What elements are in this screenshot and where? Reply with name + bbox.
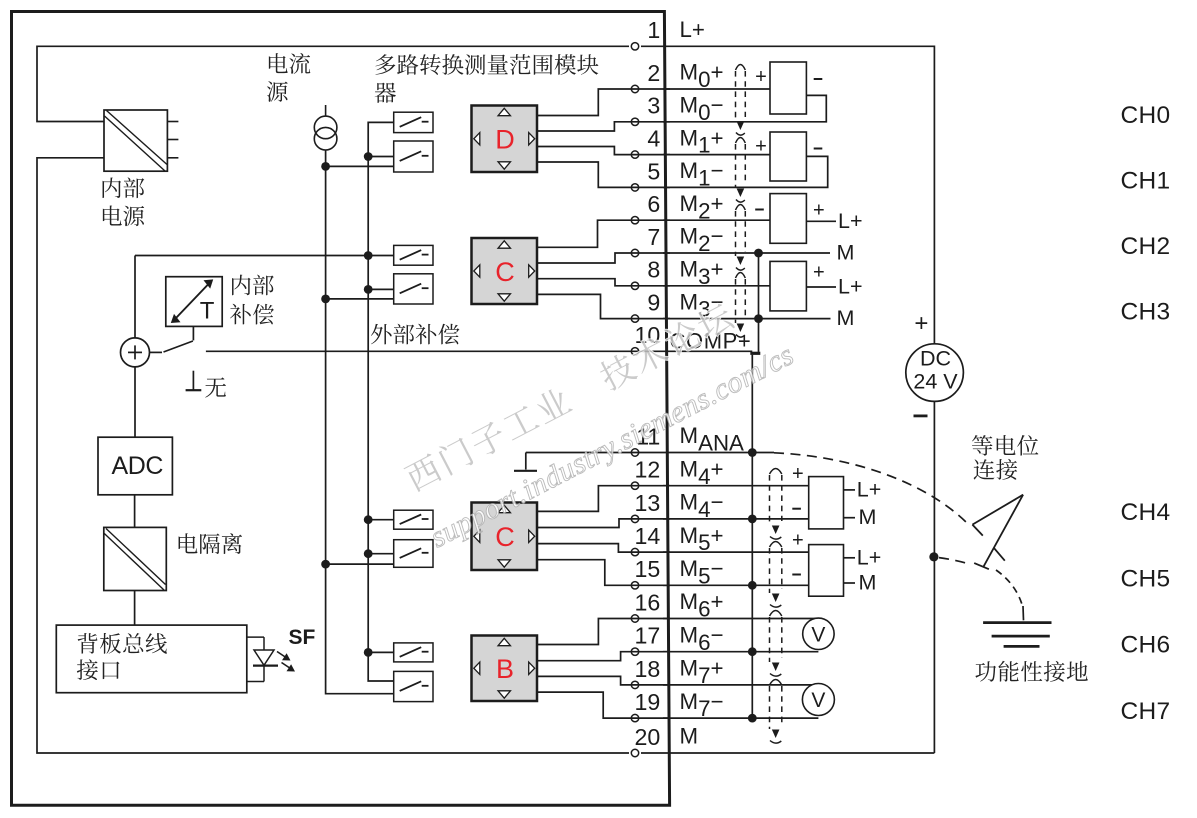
label galvanic isolation bbox=[179, 533, 243, 554]
wire mux C2 outputs to terminals 12-15 bbox=[537, 486, 670, 586]
wire mux B outputs to terminals 16-19 bbox=[537, 619, 670, 719]
2-wire transducer CH4 bbox=[809, 477, 855, 529]
svg-text:3: 3 bbox=[647, 93, 660, 119]
functional earth ground bbox=[983, 606, 1051, 646]
svg-text:7: 7 bbox=[647, 224, 660, 250]
terminal pin numbers 1-20 bbox=[635, 17, 661, 750]
svg-text:V: V bbox=[811, 624, 825, 647]
svg-text:L+: L+ bbox=[838, 209, 863, 233]
terminal clamp circles 1-20 bbox=[631, 43, 638, 757]
svg-text:CH0: CH0 bbox=[1121, 102, 1171, 129]
svg-text:C: C bbox=[495, 522, 515, 552]
wire T1 to selector switch bbox=[192, 326, 194, 340]
wire terminal 17 to voltmeter bbox=[663, 651, 818, 653]
wire MANA bus bbox=[751, 355, 753, 718]
label multiplexer range module bbox=[375, 54, 599, 103]
U3 range module C bbox=[472, 503, 538, 571]
wire ADC to isolation bbox=[134, 495, 136, 528]
svg-text:5: 5 bbox=[647, 158, 660, 184]
switch S1 bbox=[394, 112, 433, 132]
transducer CH2 bbox=[770, 194, 806, 244]
DC 24V source G1 bbox=[906, 310, 964, 416]
svg-text:+: + bbox=[914, 310, 928, 337]
svg-text:DC: DC bbox=[920, 347, 951, 371]
summing node A1 bbox=[121, 338, 150, 367]
svg-text:+: + bbox=[755, 66, 767, 88]
switch S8 bbox=[394, 671, 433, 701]
voltmeter V1 CH6 bbox=[803, 618, 834, 649]
svg-text:V: V bbox=[811, 689, 825, 712]
svg-text:6: 6 bbox=[647, 191, 660, 217]
switch S5 bbox=[394, 510, 433, 529]
wire A1 to ADC bbox=[134, 367, 136, 437]
wire terminal 8 to transducer CH3 bbox=[663, 285, 770, 287]
wire CH1 return to terminal 5 bbox=[663, 156, 828, 187]
voltmeter V2 CH7 bbox=[802, 684, 834, 716]
internal compensation sensor T1 bbox=[166, 277, 222, 327]
current source CS1 bbox=[314, 105, 337, 150]
wire L+ to DC source bbox=[0, 0, 1, 1]
wire M bus CH2/CH3 bbox=[758, 253, 760, 352]
switch S4 bbox=[394, 274, 433, 304]
label SF bbox=[289, 626, 316, 649]
svg-text:M: M bbox=[859, 505, 877, 529]
switch S6 bbox=[394, 540, 433, 568]
svg-text:2: 2 bbox=[647, 60, 660, 86]
wire switch supply bus (right) bbox=[368, 122, 394, 681]
svg-text:SF: SF bbox=[289, 626, 316, 649]
wire terminal 16 to voltmeter bbox=[663, 618, 818, 620]
svg-text:B: B bbox=[496, 654, 514, 684]
wire A1 up to compensation net bbox=[134, 256, 136, 338]
svg-text:CH1: CH1 bbox=[1121, 167, 1171, 194]
svg-text:9: 9 bbox=[647, 290, 660, 316]
U4 range module B bbox=[472, 636, 538, 702]
svg-text:20: 20 bbox=[635, 724, 661, 750]
wire terminal 18 to voltmeter bbox=[663, 684, 818, 686]
LED SF indicator D1 bbox=[247, 637, 295, 681]
svg-text:15: 15 bbox=[635, 556, 661, 582]
wire mux D outputs to terminals 2-5 bbox=[537, 89, 670, 187]
cable shield CH0-CH3 bbox=[736, 65, 746, 338]
ADC U5 bbox=[98, 437, 172, 495]
transducer CH3 bbox=[770, 261, 806, 311]
wire terminal 13 to transducer CH4 bbox=[663, 518, 809, 520]
wire constant-current bus (left) bbox=[326, 150, 394, 694]
svg-text:17: 17 bbox=[635, 623, 661, 649]
terminal net labels L+/M0..M7/COMP+/MANA/M bbox=[670, 17, 752, 749]
switch S3 bbox=[394, 245, 433, 265]
wire dashed to functional earth bbox=[996, 570, 1023, 606]
svg-text:M: M bbox=[859, 571, 877, 595]
wire L+/M supply loop bbox=[37, 46, 934, 753]
thermocouple CH1 bbox=[770, 132, 806, 181]
svg-text:14: 14 bbox=[635, 523, 661, 549]
wire equipotential dashed from M rail bbox=[939, 558, 971, 565]
wire equipotential dashed from MANA bbox=[774, 453, 968, 524]
junction dots M bus bbox=[754, 249, 763, 323]
svg-text:D: D bbox=[495, 125, 515, 155]
galvanic isolation U6 bbox=[104, 527, 167, 590]
wire CH3 L+ stub bbox=[806, 286, 836, 288]
svg-text:L+: L+ bbox=[857, 546, 882, 570]
switch S2 bbox=[394, 141, 433, 172]
label functional earth bbox=[975, 661, 1088, 682]
svg-text:+: + bbox=[792, 530, 804, 552]
svg-text:+: + bbox=[755, 136, 767, 158]
svg-text:CH6: CH6 bbox=[1121, 632, 1171, 659]
svg-text:16: 16 bbox=[635, 589, 661, 615]
svg-text:1: 1 bbox=[647, 17, 660, 43]
supply labels L+/M field side bbox=[837, 209, 882, 595]
COMP+ bus end bar bbox=[750, 352, 760, 355]
svg-text:4: 4 bbox=[647, 126, 660, 152]
wire external compensation COMP+ bbox=[206, 350, 752, 352]
svg-text:C: C bbox=[495, 257, 515, 287]
U1 range module D bbox=[472, 106, 538, 173]
wire terminal 4 to thermocouple CH1 bbox=[663, 154, 770, 156]
ground none option bbox=[186, 371, 202, 391]
svg-text:CH5: CH5 bbox=[1121, 565, 1171, 592]
label internal compensation bbox=[230, 275, 274, 325]
svg-text:CH4: CH4 bbox=[1121, 499, 1171, 526]
polarity annotations field side bbox=[755, 66, 824, 574]
wire mux C1 outputs to terminals 6-9 bbox=[537, 220, 670, 318]
channel labels CH0-CH7 bbox=[1121, 102, 1171, 725]
wire terminal 7 M net CH2 bbox=[663, 252, 830, 254]
junction dots MANA bus bbox=[748, 448, 757, 722]
svg-text:13: 13 bbox=[635, 490, 661, 516]
svg-text:M: M bbox=[837, 306, 855, 330]
analog ground MANA bbox=[514, 453, 537, 471]
svg-text:ADC: ADC bbox=[112, 452, 164, 480]
svg-text:24 V: 24 V bbox=[913, 370, 958, 394]
wire terminal 12 to transducer CH4 bbox=[663, 485, 809, 487]
label none bbox=[205, 377, 226, 397]
junction dots current bus bbox=[321, 162, 330, 568]
label external compensation bbox=[371, 324, 460, 345]
cable shield CH4-CH7 bbox=[770, 469, 782, 744]
svg-text:12: 12 bbox=[635, 457, 661, 483]
junction node equipotential bbox=[929, 552, 938, 561]
label backplane bus interface bbox=[77, 633, 167, 680]
wire A1 to switch bbox=[150, 351, 163, 353]
svg-text:T: T bbox=[200, 298, 215, 325]
svg-text:19: 19 bbox=[635, 689, 661, 715]
label equipotential bonding bbox=[972, 435, 1038, 480]
svg-text:M: M bbox=[837, 241, 855, 265]
2-wire transducer CH5 bbox=[809, 545, 855, 597]
wire internal compensation to mux C1 bbox=[135, 255, 394, 257]
wire terminal 9 M net CH3 bbox=[663, 318, 831, 320]
watermark bbox=[402, 300, 799, 555]
switch S9 compensation selector bbox=[164, 341, 193, 352]
wire terminal 11 MANA bbox=[526, 452, 774, 454]
switch S7 bbox=[394, 643, 433, 662]
svg-text:+: + bbox=[813, 262, 825, 284]
svg-text:L+: L+ bbox=[680, 17, 705, 42]
wire terminal 15 to transducer CH5 bbox=[663, 584, 809, 586]
svg-text:CH2: CH2 bbox=[1121, 233, 1171, 260]
wire isolation to backplane interface bbox=[134, 591, 136, 626]
wire terminal 14 to transducer CH5 bbox=[663, 551, 809, 553]
svg-text:CH7: CH7 bbox=[1121, 698, 1171, 725]
thermocouple CH0 bbox=[770, 62, 806, 114]
svg-text:CH3: CH3 bbox=[1121, 299, 1171, 326]
label current source bbox=[267, 53, 310, 102]
internal power supply PS1 bbox=[104, 110, 178, 171]
wire terminal 19 to voltmeter bbox=[663, 717, 818, 719]
svg-text:8: 8 bbox=[647, 257, 660, 283]
svg-text:+: + bbox=[813, 199, 825, 221]
U2 range module C bbox=[472, 238, 538, 304]
module enclosure frame bbox=[12, 12, 670, 806]
wire terminal 2 to thermocouple CH0 bbox=[663, 88, 770, 90]
wire terminal 6 to transducer CH2 bbox=[663, 219, 770, 221]
wire CH0 return to terminal 3 bbox=[663, 95, 826, 121]
svg-text:L+: L+ bbox=[838, 275, 863, 299]
equipotential bonding connector bbox=[972, 495, 1023, 570]
svg-text:+: + bbox=[792, 463, 804, 485]
backplane bus interface U7 bbox=[56, 625, 247, 693]
label internal power supply bbox=[103, 177, 145, 226]
junction dots supply bus bbox=[364, 152, 373, 657]
wire CH2 L+ stub bbox=[806, 220, 836, 222]
svg-text:M: M bbox=[680, 724, 699, 749]
svg-text:18: 18 bbox=[635, 656, 661, 682]
svg-text:L+: L+ bbox=[857, 478, 882, 502]
